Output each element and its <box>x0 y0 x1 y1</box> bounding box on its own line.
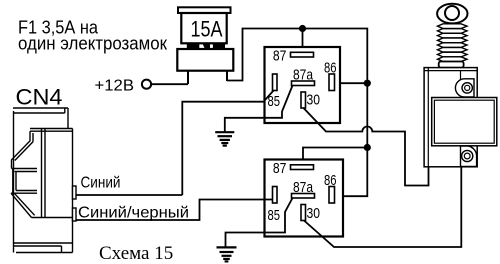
actuator M1 motor block <box>432 98 497 146</box>
wire Синий/черный (blue/black) <box>76 200 273 221</box>
wire relay1 pin 86 to bus <box>335 82 368 84</box>
connector CN4 housing <box>11 108 73 253</box>
actuator M1 collar <box>439 62 464 68</box>
relay K1 box <box>265 47 341 123</box>
svg-text:CN4: CN4 <box>16 85 63 110</box>
relay K1 pin 86 bar <box>329 74 335 91</box>
node: junction dot bus / relay2 87 <box>364 144 371 151</box>
relay K2 pin 87 bar <box>291 165 314 170</box>
relay K2 pin 85 bar <box>273 187 278 204</box>
ground symbol 1 <box>215 132 234 145</box>
relay K2 pin 86 bar <box>329 187 335 204</box>
connector CN4 terminal bump lower <box>73 208 77 221</box>
svg-text:Синий: Синий <box>81 175 121 192</box>
wire relay1 pin87a to ground1 <box>225 86 293 133</box>
svg-text:+12В: +12В <box>95 78 135 95</box>
actuator M1 lower screw tab <box>461 146 477 167</box>
actuator M1 upper screw tab <box>455 79 474 97</box>
svg-text:87: 87 <box>273 160 287 177</box>
fuse blade left <box>187 43 200 49</box>
actuator M1 eyelet <box>437 4 467 24</box>
relay K2 box <box>265 160 344 237</box>
svg-text:один электрозамок: один электрозамок <box>18 34 167 54</box>
relay K1 pin 85 bar <box>273 74 278 91</box>
actuator M1 body <box>424 68 477 167</box>
wire bus to relay2 pin 87 <box>303 148 367 166</box>
relay K1 pin 30 bar <box>301 92 306 108</box>
wire relay2 pin87a to ground2 <box>226 198 293 247</box>
wire relay2 pin30 to actuator right terminal <box>304 167 461 247</box>
fuse blade right <box>213 43 225 49</box>
wire Синий (blue) <box>76 194 182 196</box>
fuse holder left leg <box>187 71 189 84</box>
fuse blade middle wedge <box>202 43 210 49</box>
wire top bus to relay1 pin 87 <box>302 29 304 54</box>
connector CN4 terminal bump upper <box>73 186 77 199</box>
actuator M1 spring <box>438 24 468 62</box>
wire +12V to fuse left leg <box>151 83 188 85</box>
relay K2 pin 30 bar <box>301 205 306 221</box>
node: junction dot top bus to relay1 87 <box>299 25 306 32</box>
svg-text:87: 87 <box>273 48 287 65</box>
fuse holder body <box>177 49 233 71</box>
fuse holder right leg <box>226 71 228 81</box>
fuse F1 body <box>181 13 226 43</box>
node: junction dot bus / relay1 86 <box>364 80 371 87</box>
relay K2 pin 87a bar <box>292 194 315 199</box>
ground symbol 2 <box>217 247 237 261</box>
wire relay1 pin30 to actuator (with hop) <box>304 108 429 186</box>
fuse F1 top bar <box>178 7 231 13</box>
relay K1 pin 87a bar <box>292 81 315 86</box>
svg-text:30: 30 <box>307 92 321 109</box>
wire relay1 pin85 diagonal to left <box>182 91 273 196</box>
+12V terminal circle <box>142 80 151 89</box>
wire fuse right leg to top bus <box>227 29 367 197</box>
svg-text:Схема 15: Схема 15 <box>99 243 173 264</box>
svg-text:15A: 15A <box>191 17 223 42</box>
svg-text:Синий/черный: Синий/черный <box>78 205 189 222</box>
relay K1 pin 87 bar <box>291 52 314 57</box>
svg-text:85: 85 <box>268 207 281 224</box>
svg-text:30: 30 <box>307 205 321 222</box>
